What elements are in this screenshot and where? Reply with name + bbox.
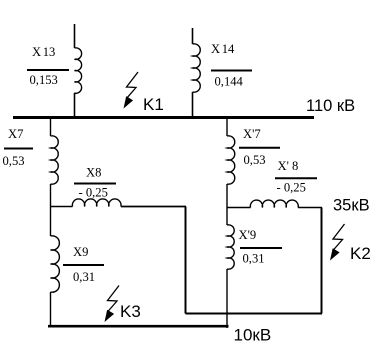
fraction bar X'8 (275, 177, 317, 179)
reactor coil X8 (72, 199, 121, 207)
wire: X'9 coil down across box bottom to 10 kV bus (226, 269, 228, 328)
wire: 110 kV bus to X7 coil (50, 118, 52, 136)
wire: X9 coil to 10 kV bus (50, 292, 52, 327)
wire: generator lead above X14 (192, 28, 194, 44)
svg-text:0,31: 0,31 (73, 270, 95, 284)
svg-text:X'9: X'9 (239, 228, 257, 242)
svg-text:35кВ: 35кВ (333, 197, 370, 215)
svg-text:0,153: 0,153 (30, 73, 58, 87)
wire: generator lead above X13 (74, 24, 76, 48)
wire: X'8 branch left segment from node on X'7 line (227, 207, 251, 209)
svg-text:- 0,25: - 0,25 (277, 181, 306, 195)
svg-text:K1: K1 (143, 95, 164, 114)
wire: X13 bottom to 110 kV bus (74, 93, 76, 117)
fraction bar X'7 (239, 147, 280, 149)
svg-text:110 кВ: 110 кВ (306, 97, 355, 115)
bus 110 kV (13, 116, 314, 119)
wire: left-box right edge down (185, 207, 187, 314)
svg-text:X8: X8 (86, 166, 101, 180)
svg-text:X' 8: X' 8 (278, 159, 299, 173)
wire: 35 kV right edge down (321, 208, 323, 314)
wire: X8 branch left segment from node on X7 line (51, 206, 73, 208)
wire: X8 coil to left-box corner (121, 206, 186, 208)
svg-text:K2: K2 (350, 244, 371, 263)
wire: X'7 coil to X'9 coil (node with X'8 branch) (226, 184, 228, 225)
svg-text:K3: K3 (120, 302, 141, 321)
fraction bar X9 (63, 264, 104, 266)
fraction bar X8 (74, 183, 116, 185)
reactor coil X13 (75, 48, 82, 94)
fraction bar X'9 (240, 247, 282, 249)
svg-text:X'7: X'7 (243, 127, 261, 141)
fraction bar X7 (4, 148, 33, 150)
wire: X'8 coil to 35 kV corner (298, 207, 322, 209)
svg-text:X7: X7 (8, 127, 23, 141)
svg-text:X 14: X 14 (211, 42, 235, 56)
wire: X7 coil to X9 coil (node with X8 branch) (50, 184, 52, 236)
reactor coil X7 (51, 136, 59, 184)
svg-text:- 0,25: - 0,25 (79, 186, 108, 200)
svg-text:X 13: X 13 (32, 45, 55, 59)
fault K3 lightning arrow (105, 286, 120, 323)
reactor coil X14 (193, 44, 201, 92)
svg-text:0,144: 0,144 (215, 75, 244, 89)
svg-text:10кВ: 10кВ (234, 326, 272, 345)
fault K2 lightning arrow (330, 224, 345, 261)
fault K1 lightning arrow (124, 72, 139, 109)
svg-text:0,53: 0,53 (244, 153, 266, 167)
fraction bar X13 (27, 69, 69, 71)
fraction bar X14 (211, 70, 252, 72)
wire: box bottom joining X8 and X'8 loops (186, 313, 323, 315)
svg-text:0,53: 0,53 (3, 154, 25, 168)
wire: 110 kV bus to X'7 coil (226, 118, 228, 136)
svg-text:X9: X9 (73, 245, 88, 259)
reactor coil X9 (51, 236, 60, 292)
reactor coil X'7 (227, 136, 235, 184)
svg-text:0,31: 0,31 (243, 252, 265, 266)
reactor coil X'8 (250, 200, 298, 207)
bus 10 kV (48, 325, 229, 328)
wire: X14 bottom to 110 kV bus (192, 92, 194, 117)
reactor coil X'9 (227, 225, 234, 269)
